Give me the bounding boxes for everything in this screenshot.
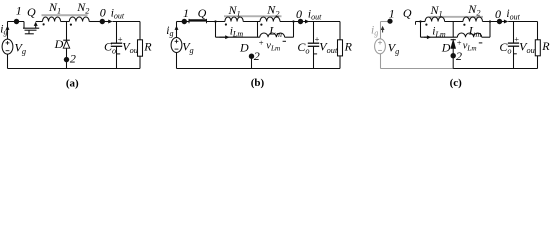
svg-text:1: 1 bbox=[183, 6, 189, 20]
winding N2 (c) bbox=[463, 17, 483, 22]
label Q (b) bbox=[198, 6, 207, 20]
current arrow ig (b) bbox=[175, 26, 179, 35]
node 0 (a) bbox=[100, 19, 105, 24]
junction dot left riser (b) bbox=[214, 20, 216, 22]
label node 2 (b) bbox=[254, 49, 260, 63]
label N2 (b) bbox=[266, 3, 279, 19]
current arrow iout (c) bbox=[502, 20, 508, 24]
label N1 (b) bbox=[228, 3, 241, 19]
node 2 (a) bbox=[64, 57, 69, 62]
winding N1 (c) bbox=[425, 17, 445, 22]
wire Co to bottom (c) bbox=[513, 46, 515, 68]
junction dot right riser (c) bbox=[489, 20, 491, 22]
label iLm (c) bbox=[432, 25, 446, 38]
minus sign vLm (b) bbox=[283, 40, 286, 42]
svg-text:+: + bbox=[457, 38, 462, 48]
label node 1 (b) bbox=[183, 6, 189, 20]
wire node 0 to right corner (c) bbox=[508, 21, 537, 23]
junction to Lm branch (b) bbox=[257, 22, 259, 38]
wire Vg to bottom rail (a) bbox=[7, 54, 9, 68]
right riser Lm branch to node 0 (b) bbox=[293, 22, 295, 38]
wire N2 to node 0 (b) bbox=[280, 21, 303, 23]
svg-text:iLm: iLm bbox=[230, 25, 244, 38]
node 1 (c) bbox=[387, 19, 392, 24]
label D (c) bbox=[441, 41, 451, 55]
bottom wire (a) bbox=[8, 68, 141, 70]
magnetic core (b) bbox=[224, 15, 282, 17]
label R (b) bbox=[344, 39, 353, 53]
svg-text:Vout: Vout bbox=[319, 39, 338, 55]
wire input corner (b) bbox=[177, 22, 190, 38]
label Vout (c) bbox=[519, 39, 538, 55]
polarity dot N2 (b) bbox=[260, 24, 262, 26]
wire node 0 to right corner (a) bbox=[113, 21, 141, 23]
caption (a) bbox=[66, 77, 79, 89]
wire N1 to N2 (c) bbox=[445, 21, 463, 23]
wire top to capacitor Co (c) bbox=[513, 22, 515, 44]
wire diode to node 2 (a) bbox=[66, 48, 68, 68]
svg-text:Q: Q bbox=[27, 5, 36, 19]
wire N2 to node 0 (a) bbox=[89, 21, 104, 23]
wire N2 to node 0 (c) bbox=[483, 21, 502, 23]
label N1 (a) bbox=[48, 0, 61, 16]
polarity dot N1 (b) bbox=[225, 23, 227, 25]
voltage source Vg (b) bbox=[171, 38, 182, 53]
label iLm (b) bbox=[230, 25, 244, 38]
wire diode to node 2 (c) bbox=[452, 48, 454, 69]
svg-text:(c): (c) bbox=[450, 77, 463, 89]
Lm branch wire (b) bbox=[216, 36, 294, 38]
wire N1 to N2 (b) bbox=[243, 21, 260, 23]
label iout (b) bbox=[308, 8, 322, 21]
label Lm (c) bbox=[468, 24, 482, 40]
svg-text:Vg: Vg bbox=[15, 41, 27, 57]
current arrow ig (a) bbox=[6, 26, 10, 35]
minus sign vLm (c) bbox=[479, 42, 483, 44]
svg-text:+: + bbox=[259, 38, 264, 48]
wire Vg to bottom rail (b) bbox=[176, 53, 178, 69]
junction dot right riser (b) bbox=[292, 20, 294, 22]
current arrow iout (b) bbox=[303, 20, 309, 24]
label vLm (b) bbox=[266, 40, 280, 52]
svg-text:R: R bbox=[344, 39, 353, 53]
inductor Lm (c) bbox=[457, 33, 481, 37]
svg-text:1: 1 bbox=[16, 3, 22, 17]
label Lm (b) bbox=[268, 24, 282, 40]
svg-text:N2: N2 bbox=[76, 0, 89, 16]
current arrow iout (a) bbox=[105, 20, 113, 24]
magnetic core (a) bbox=[42, 14, 88, 16]
label Vg (b) bbox=[182, 40, 194, 56]
right wire with load (a) bbox=[139, 22, 141, 69]
label node 2 (a) bbox=[70, 51, 76, 65]
capacitor Co (a) bbox=[111, 43, 122, 46]
closed switch Q (b) bbox=[189, 19, 207, 23]
label D (b) bbox=[239, 40, 249, 54]
node 1 (a) bbox=[14, 19, 19, 24]
winding N1 (b) bbox=[225, 17, 243, 22]
resistor R (b) bbox=[338, 40, 343, 56]
wire switch to N1 (b) bbox=[207, 21, 225, 23]
inactive wire Vg to bottom (c) bbox=[380, 54, 382, 69]
capacitor Co (b) bbox=[308, 43, 319, 46]
capacitor Co (c) bbox=[508, 43, 519, 46]
svg-text:N1: N1 bbox=[48, 0, 61, 16]
svg-text:0: 0 bbox=[296, 7, 302, 21]
label iout (c) bbox=[506, 8, 520, 21]
minus sign Vout (a) bbox=[117, 53, 121, 55]
polarity dot N2 (c) bbox=[463, 24, 465, 26]
label node 2 (c) bbox=[456, 49, 462, 63]
plus sign Vout (b) bbox=[315, 34, 320, 44]
svg-text:2: 2 bbox=[254, 49, 260, 63]
svg-text:N1: N1 bbox=[430, 3, 443, 19]
bottom wire (b) bbox=[177, 68, 341, 70]
caption (b) bbox=[251, 77, 265, 89]
svg-text:1: 1 bbox=[389, 7, 395, 21]
winding N2 (a) bbox=[69, 17, 89, 22]
svg-text:(a): (a) bbox=[66, 77, 79, 89]
label R (c) bbox=[541, 39, 550, 53]
label Vout (a) bbox=[122, 39, 141, 55]
label R (a) bbox=[143, 39, 152, 53]
svg-text:vLm: vLm bbox=[463, 40, 477, 52]
inactive bottom wire (c) bbox=[381, 68, 454, 70]
svg-text:Q: Q bbox=[198, 6, 207, 20]
svg-text:Vg: Vg bbox=[388, 40, 400, 56]
svg-text:N2: N2 bbox=[467, 2, 480, 18]
wire Q to N1 (a) bbox=[36, 21, 43, 23]
label node 0 (b) bbox=[296, 7, 302, 21]
label Q (a) bbox=[27, 5, 36, 19]
polarity dot N1 (a) bbox=[43, 23, 45, 25]
svg-text:Q: Q bbox=[403, 6, 412, 20]
label N2 (c) bbox=[467, 2, 480, 18]
wire node 2 stub (b) bbox=[251, 56, 253, 68]
svg-text:ig: ig bbox=[0, 23, 7, 36]
wire switch to N1 (c) bbox=[416, 21, 426, 23]
minus sign Vout (b) bbox=[314, 53, 318, 55]
svg-text:Lm: Lm bbox=[268, 24, 282, 40]
svg-text:2: 2 bbox=[70, 51, 76, 65]
left riser to Lm branch (b) bbox=[215, 22, 217, 38]
diode D (a) bbox=[63, 40, 70, 48]
svg-text:2: 2 bbox=[456, 49, 462, 63]
node 0 (b) bbox=[298, 19, 303, 24]
label Q (c) bbox=[403, 6, 412, 20]
label Co (c) bbox=[499, 40, 511, 56]
Lm branch wire (c) bbox=[421, 36, 491, 38]
svg-text:D: D bbox=[441, 41, 451, 55]
label ig (c) bbox=[371, 24, 378, 37]
label node 0 (a) bbox=[100, 6, 106, 20]
svg-text:Co: Co bbox=[297, 40, 309, 56]
svg-text:iout: iout bbox=[506, 8, 520, 21]
transistor Q (a) bbox=[23, 22, 39, 34]
minus sign Vout (c) bbox=[513, 53, 517, 55]
polarity dot N1 (c) bbox=[425, 24, 427, 26]
wire junction to diode (a) bbox=[66, 22, 68, 41]
svg-text:iout: iout bbox=[111, 7, 125, 20]
svg-text:R: R bbox=[143, 39, 152, 53]
svg-text:D: D bbox=[54, 37, 64, 51]
label Co (b) bbox=[297, 40, 309, 56]
wire input corner (a) bbox=[8, 22, 25, 40]
svg-text:vLm: vLm bbox=[266, 40, 280, 52]
active bottom wire (c) bbox=[453, 68, 537, 70]
svg-text:Co: Co bbox=[104, 40, 116, 56]
label ig (a) bbox=[0, 23, 7, 36]
svg-text:iout: iout bbox=[308, 8, 322, 21]
wire N1 to N2 (a) bbox=[61, 21, 70, 23]
svg-text:(b): (b) bbox=[251, 77, 265, 89]
label N1 (c) bbox=[430, 3, 443, 19]
svg-text:iLm: iLm bbox=[432, 25, 446, 38]
wire Co to bottom (b) bbox=[313, 46, 315, 68]
right wire with load (c) bbox=[537, 22, 539, 69]
node 2 (b) bbox=[249, 54, 254, 59]
svg-text:N2: N2 bbox=[266, 3, 279, 19]
label ig (b) bbox=[166, 25, 173, 38]
label node 1 (c) bbox=[389, 7, 395, 21]
label Co (a) bbox=[104, 40, 116, 56]
svg-text:R: R bbox=[541, 39, 550, 53]
svg-text:ig: ig bbox=[166, 25, 173, 38]
open switch Q terminal (c) bbox=[415, 22, 417, 25]
voltage source Vg (c) bbox=[375, 39, 386, 54]
current arrow iLm (b) bbox=[220, 35, 230, 39]
resistor R (a) bbox=[138, 40, 143, 56]
inactive wire input corner (c) bbox=[381, 22, 388, 39]
winding N2 (b) bbox=[260, 17, 280, 22]
svg-text:Vg: Vg bbox=[182, 40, 194, 56]
junction dot left riser (c) bbox=[419, 20, 421, 22]
inductor Lm (b) bbox=[260, 33, 285, 37]
svg-text:0: 0 bbox=[100, 6, 106, 20]
node 2 (c) bbox=[451, 53, 456, 58]
polarity dot N2 (a) bbox=[70, 24, 72, 26]
label Vout (b) bbox=[319, 39, 338, 55]
svg-text:D: D bbox=[239, 40, 249, 54]
label iout (a) bbox=[111, 7, 125, 20]
current arrow ig (c) bbox=[381, 26, 385, 33]
label N2 (a) bbox=[76, 0, 89, 16]
label Vg (c) bbox=[388, 40, 400, 56]
current arrow iLm (c) bbox=[424, 35, 431, 39]
plus sign Vout (a) bbox=[118, 34, 123, 44]
label node 0 (c) bbox=[495, 7, 501, 21]
caption (c) bbox=[450, 77, 463, 89]
diode D (c) bbox=[451, 40, 456, 49]
magnetic core (c) bbox=[430, 16, 484, 18]
svg-text:Lm: Lm bbox=[468, 24, 482, 40]
svg-text:ig: ig bbox=[371, 24, 378, 37]
svg-text:N1: N1 bbox=[228, 3, 241, 19]
node 0 (c) bbox=[497, 19, 502, 24]
junction to Lm branch (c) bbox=[452, 22, 454, 38]
voltage source Vg (a) bbox=[2, 39, 13, 54]
node 1 (b) bbox=[182, 19, 187, 24]
label D (a) bbox=[54, 37, 64, 51]
label vLm (c) bbox=[463, 40, 477, 52]
plus sign vLm (b) bbox=[259, 38, 264, 48]
wire node 0 to right corner (b) bbox=[309, 21, 341, 23]
plus sign Vout (c) bbox=[514, 34, 519, 44]
label node 1 (a) bbox=[16, 3, 22, 17]
label Vg (a) bbox=[15, 41, 27, 57]
left riser to Lm branch (c) bbox=[420, 22, 422, 38]
wire Co to bottom (a) bbox=[116, 46, 118, 68]
wire top to capacitor Co (a) bbox=[116, 22, 118, 44]
resistor R (c) bbox=[535, 40, 540, 56]
right riser Lm branch to node 0 (c) bbox=[489, 22, 491, 38]
winding N1 (a) bbox=[43, 17, 61, 22]
plus sign vLm (c) bbox=[457, 38, 462, 48]
right wire with load (b) bbox=[339, 22, 341, 69]
svg-text:Co: Co bbox=[499, 40, 511, 56]
svg-text:0: 0 bbox=[495, 7, 501, 21]
wire top to capacitor Co (b) bbox=[313, 22, 315, 44]
